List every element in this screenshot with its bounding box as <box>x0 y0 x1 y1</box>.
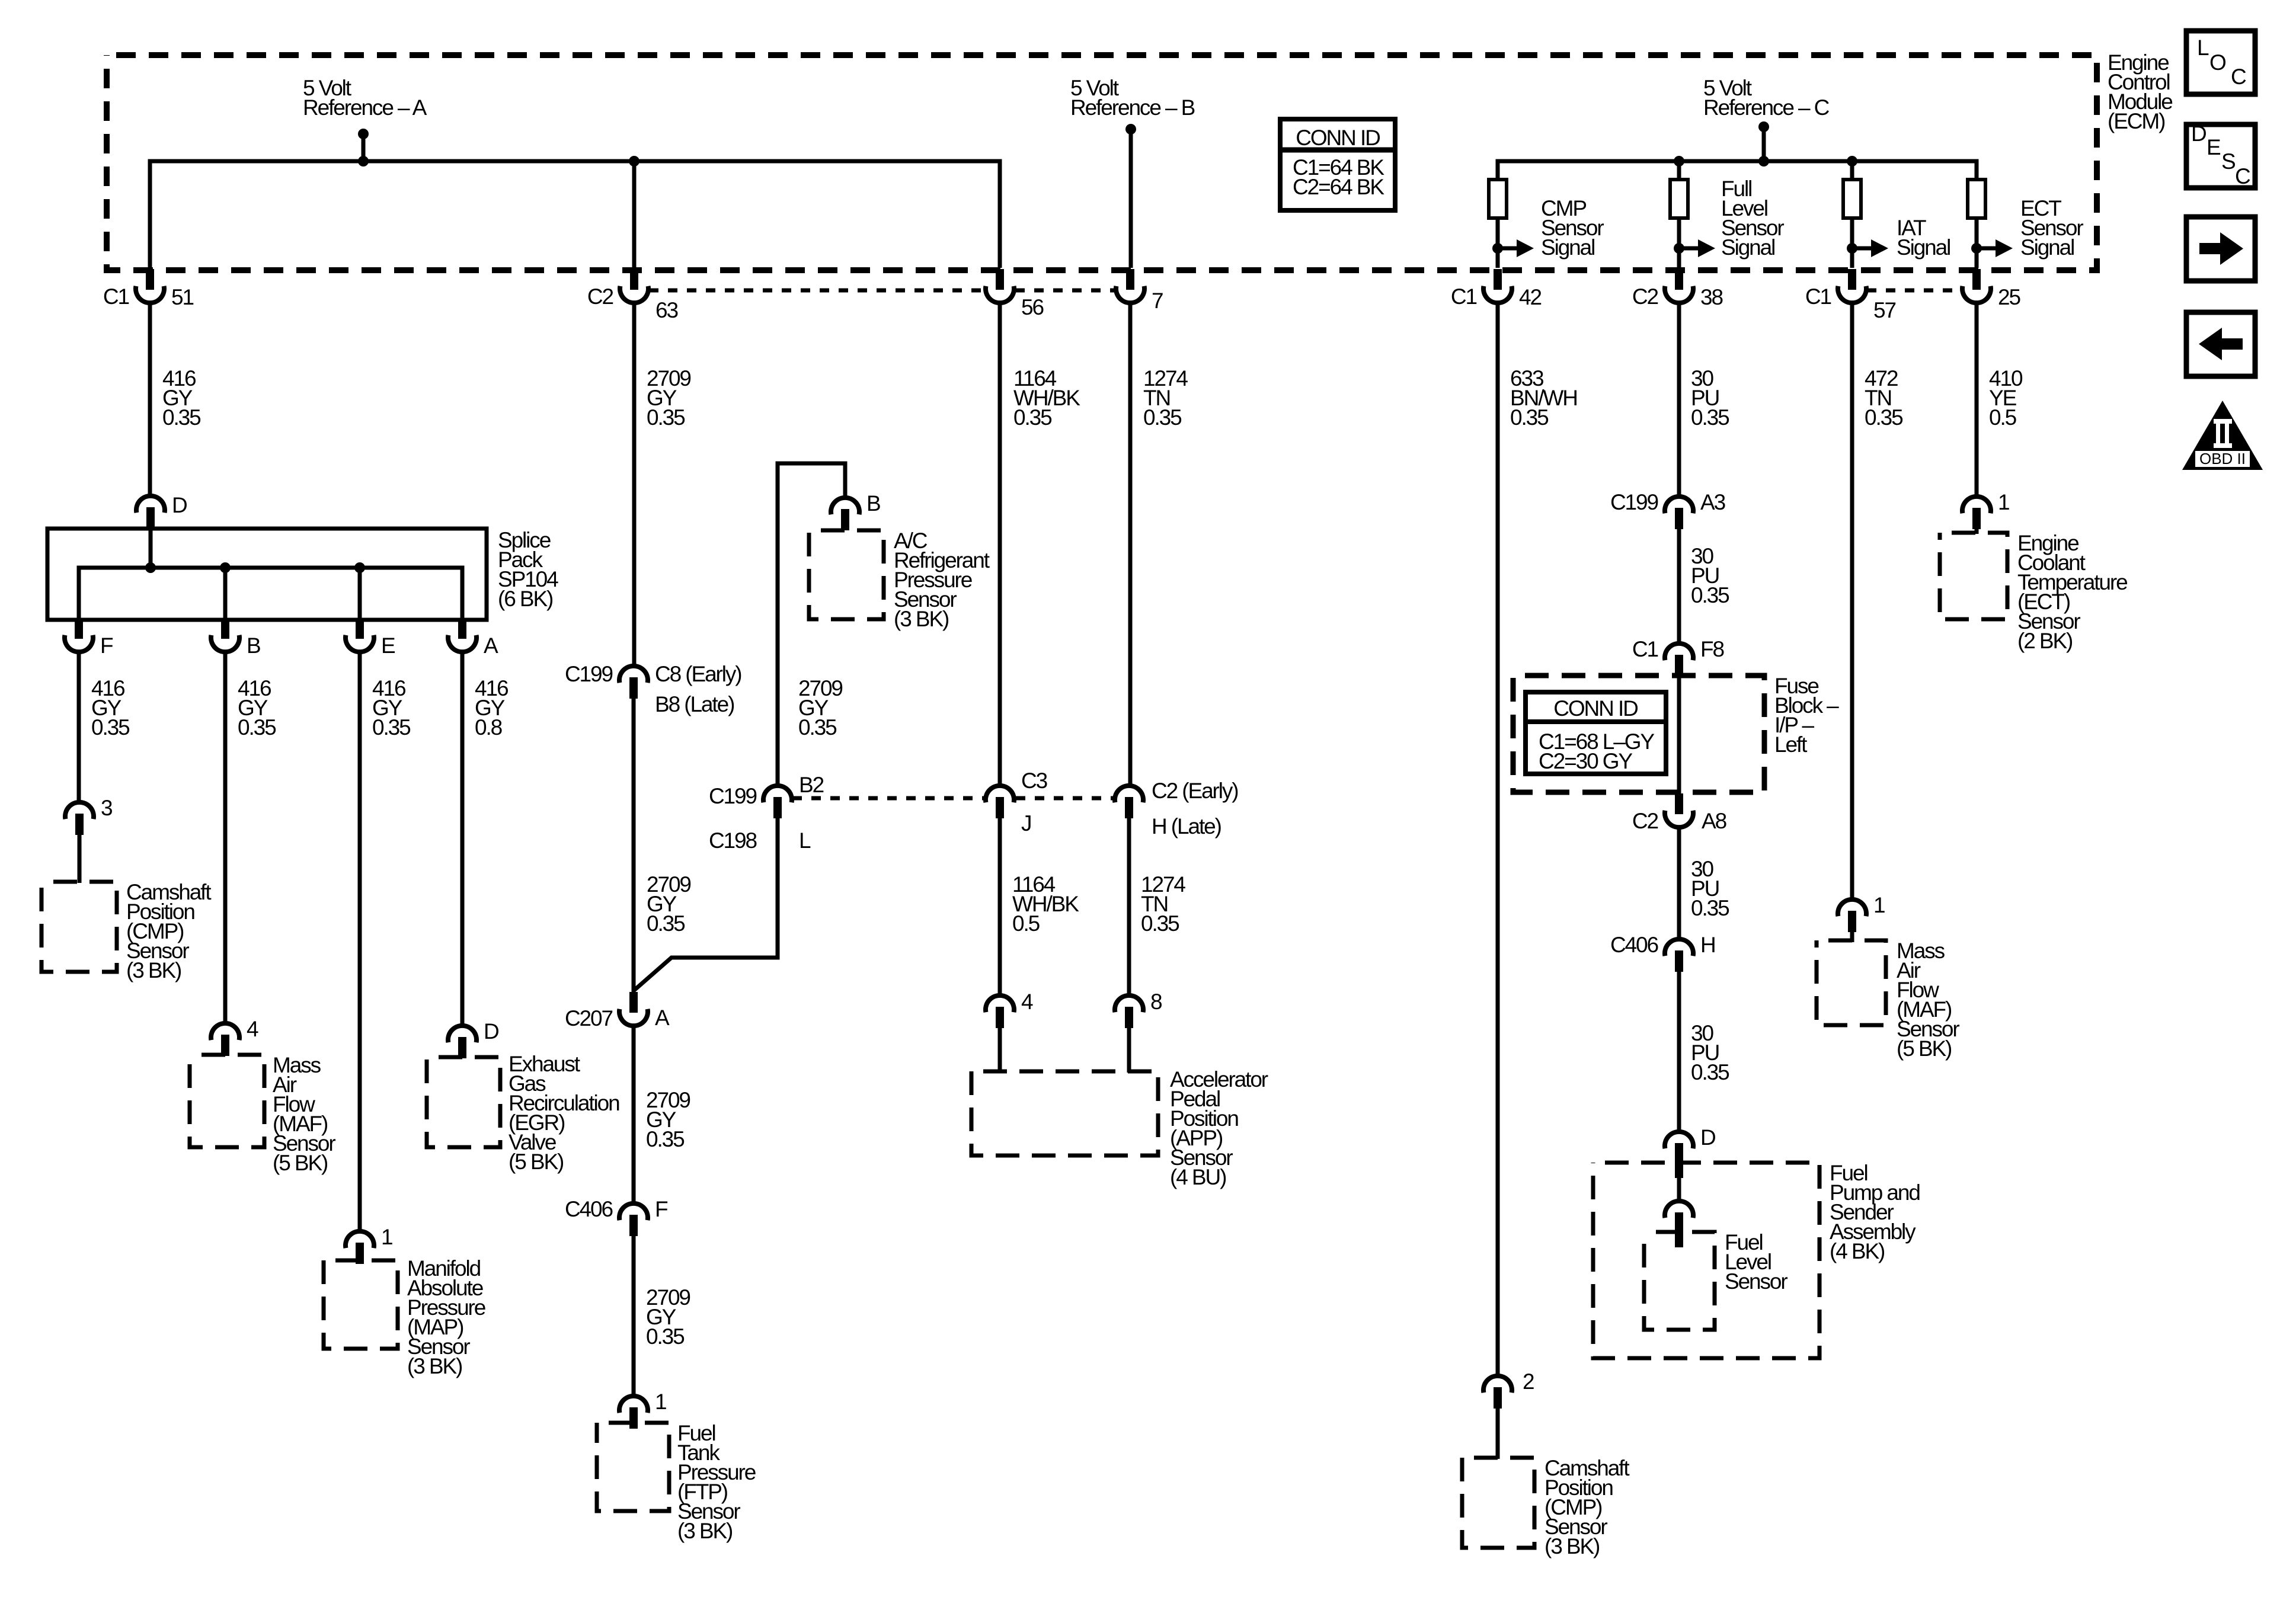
connector C2 pin 63 <box>587 269 678 322</box>
Engine Control Module box <box>107 55 2097 270</box>
label 1164 WH/BK 0.35 <box>1013 366 1080 430</box>
connector C406 F <box>565 1197 668 1236</box>
svg-text:E: E <box>2207 135 2221 159</box>
wire 1 into ECT box <box>1975 526 1979 534</box>
label 416 GY 0.8 (A) <box>475 676 508 740</box>
connector D fuel pump <box>1665 1125 1715 1164</box>
node B stub dot <box>1125 124 1136 135</box>
svg-text:(6 BK): (6 BK) <box>498 587 553 611</box>
svg-text:Signal: Signal <box>1897 235 1950 260</box>
node 5 Volt Reference - C label <box>1703 76 1830 120</box>
connector 1 MAF sensor (right) <box>1838 893 1885 932</box>
wire C stub <box>1762 127 1766 161</box>
fuel level sensor label <box>1725 1230 1787 1294</box>
wire H to fuel pump <box>1677 969 1681 1132</box>
svg-text:0.35: 0.35 <box>1691 583 1729 607</box>
wire r3 bottom <box>1850 218 1854 268</box>
svg-text:C: C <box>2235 164 2250 188</box>
svg-text:0.35: 0.35 <box>1143 405 1182 430</box>
svg-text:7: 7 <box>1152 289 1163 313</box>
label 2709 GY 0.35 (mid) <box>646 1088 690 1151</box>
svg-text:0.35: 0.35 <box>646 1127 685 1151</box>
svg-text:D: D <box>484 1019 498 1044</box>
wire 472 from pin 57 <box>1850 303 1854 900</box>
svg-text:4: 4 <box>1021 990 1033 1014</box>
splice pack SP104 box <box>47 529 487 620</box>
node C stub dot <box>1758 121 1769 132</box>
svg-text:C8 (Early): C8 (Early) <box>655 662 741 686</box>
right arrow box <box>2186 217 2255 281</box>
svg-text:(4 BU): (4 BU) <box>1170 1165 1226 1189</box>
wire F8 through fuse block <box>1677 673 1681 794</box>
svg-text:(3 BK): (3 BK) <box>407 1354 462 1378</box>
svg-text:F8: F8 <box>1700 637 1724 661</box>
svg-text:1: 1 <box>381 1225 392 1249</box>
connector C1 pin 57 <box>1805 269 1896 322</box>
label 2709 GY 0.35 (C207) <box>647 872 690 936</box>
svg-text:L: L <box>2197 36 2209 60</box>
Fuel Level Sensor box <box>1644 1232 1715 1330</box>
connector C406 H <box>1610 933 1715 972</box>
svg-text:(3 BK): (3 BK) <box>1544 1534 1600 1558</box>
wire B to MAF <box>223 652 228 1023</box>
connector pin 25 <box>1962 269 2020 309</box>
svg-text:A: A <box>655 1006 670 1030</box>
svg-text:42: 42 <box>1519 285 1541 309</box>
wire D into splice bus <box>149 529 153 568</box>
wire bus C <box>1498 161 1977 180</box>
CONN ID box (fuse block) <box>1526 692 1666 774</box>
node 5 Volt Reference - B label <box>1070 76 1195 120</box>
junction bus C r3 <box>1847 156 1857 167</box>
MAF sensor label (right) <box>1897 939 1959 1061</box>
svg-text:C406: C406 <box>565 1197 613 1221</box>
DESC box <box>2186 121 2255 188</box>
svg-text:0.35: 0.35 <box>647 405 685 430</box>
resistor CMP signal <box>1489 180 1507 218</box>
svg-text:Reference – A: Reference – A <box>303 95 427 120</box>
connector C2 A8 <box>1632 793 1726 833</box>
wire 38 to C199 A3 <box>1677 303 1681 497</box>
wire A8 to C406 H <box>1677 827 1681 939</box>
LOC box <box>2186 31 2255 94</box>
label 416 GY 0.35 (F) <box>91 676 130 740</box>
label 30 PU 0.35 (top) <box>1691 366 1729 430</box>
connector splice A <box>448 618 498 658</box>
svg-text:0.35: 0.35 <box>1013 405 1052 430</box>
wire 2 to CMP box <box>1496 1406 1500 1459</box>
connector 1 MAP sensor <box>346 1225 392 1264</box>
CMP sensor label (bottom) <box>1544 1456 1630 1558</box>
connector C199/C198 B2/L <box>709 773 824 853</box>
svg-text:A: A <box>484 633 498 658</box>
wire C406 to FTP <box>632 1233 636 1396</box>
svg-text:1: 1 <box>1873 893 1885 917</box>
wire r2 top <box>1677 161 1681 180</box>
arrow IAT signal <box>1847 216 1950 260</box>
svg-text:C2: C2 <box>1632 284 1658 309</box>
wire branch to pin 63 <box>632 161 637 268</box>
svg-text:C2: C2 <box>587 284 613 309</box>
Camshaft Position Sensor box <box>41 882 117 972</box>
svg-text:2: 2 <box>1523 1369 1534 1394</box>
svg-text:0.35: 0.35 <box>1510 405 1549 430</box>
svg-text:C: C <box>2231 65 2246 89</box>
label 416 GY 0.35 (B) <box>238 676 276 740</box>
connector pin 56 <box>986 269 1043 319</box>
wire 1274 from pin 7 <box>1128 303 1133 786</box>
svg-text:F: F <box>100 633 113 658</box>
svg-text:0.35: 0.35 <box>1691 405 1729 430</box>
svg-text:C1: C1 <box>1632 637 1658 661</box>
svg-text:L: L <box>799 828 811 853</box>
svg-text:C406: C406 <box>1610 933 1658 957</box>
Camshaft Position Sensor box (bottom) <box>1462 1458 1534 1548</box>
connector B A/C sensor <box>831 491 880 530</box>
wire 4 into APP box <box>998 1025 1002 1073</box>
left arrow box <box>2186 312 2255 376</box>
ECT sensor label <box>2017 531 2127 653</box>
ECM C1 harness dashed line right <box>1867 289 1959 293</box>
svg-text:1: 1 <box>655 1390 666 1414</box>
svg-text:(3 BK): (3 BK) <box>677 1519 733 1543</box>
fuel pump label <box>1830 1161 1920 1263</box>
svg-text:25: 25 <box>1998 285 2020 309</box>
svg-text:0.35: 0.35 <box>372 715 411 740</box>
wire splice bus <box>79 568 462 620</box>
svg-text:C2: C2 <box>1632 809 1658 833</box>
junction splice B <box>220 562 231 573</box>
svg-text:O: O <box>2209 50 2226 75</box>
svg-text:8: 8 <box>1150 990 1162 1014</box>
svg-text:H: H <box>1700 933 1715 957</box>
label 1274 TN 0.35 <box>1143 366 1188 430</box>
wire splice leg B <box>223 568 228 620</box>
label 2709 GY 0.35 (B2) <box>798 676 842 740</box>
EGR valve box <box>427 1057 500 1147</box>
connector splice F <box>65 618 113 658</box>
svg-text:Left: Left <box>1774 732 1808 757</box>
arrow Full Level sensor signal <box>1674 177 1784 260</box>
A/C Refrigerant Pressure Sensor box <box>809 530 884 619</box>
svg-text:0.35: 0.35 <box>238 715 276 740</box>
label 30 PU 0.35 (4) <box>1691 1021 1729 1084</box>
svg-text:C2=64 BK: C2=64 BK <box>1293 175 1384 199</box>
wire 1164 from pin 56 <box>998 303 1002 786</box>
svg-text:1: 1 <box>1998 490 2009 514</box>
junction splice D <box>145 562 156 573</box>
svg-text:D: D <box>1700 1125 1715 1150</box>
inline harness dashed line row2 <box>792 796 1113 801</box>
svg-text:Reference – B: Reference – B <box>1070 95 1195 120</box>
MAF sensor label <box>273 1053 335 1175</box>
connector 3 CMP sensor <box>65 796 112 835</box>
wire A stub <box>362 134 366 161</box>
connector C2 pin 38 <box>1632 269 1723 309</box>
svg-text:A8: A8 <box>1702 809 1726 833</box>
resistor IAT signal <box>1843 180 1861 218</box>
connector splice E <box>346 618 395 658</box>
svg-text:C199: C199 <box>709 784 757 808</box>
wire C8 to C207 <box>632 696 636 993</box>
svg-text:Signal: Signal <box>1721 235 1774 260</box>
svg-text:OBD II: OBD II <box>2199 450 2246 468</box>
arrow ECT sensor signal <box>1971 196 2083 260</box>
Manifold Absolute Pressure sensor box <box>324 1260 398 1349</box>
connector C1 F8 <box>1632 637 1724 676</box>
svg-text:C198: C198 <box>709 828 757 853</box>
svg-text:(3 BK): (3 BK) <box>126 958 181 982</box>
connector C1 pin 51 <box>103 269 194 309</box>
svg-text:Reference – C: Reference – C <box>1703 95 1830 120</box>
svg-text:57: 57 <box>1873 298 1895 322</box>
svg-text:C207: C207 <box>565 1006 613 1030</box>
junction bus C at stub <box>1758 156 1769 167</box>
svg-text:Signal: Signal <box>1541 235 1594 260</box>
junction bus A at stub <box>358 156 369 167</box>
svg-text:C199: C199 <box>565 662 613 686</box>
svg-text:38: 38 <box>1700 285 1722 309</box>
wire C207 to C406 <box>632 1026 636 1204</box>
svg-text:Signal: Signal <box>2020 235 2074 260</box>
wire splice leg E <box>358 568 362 620</box>
connector D EGR valve <box>448 1019 498 1058</box>
svg-text:CONN ID: CONN ID <box>1553 696 1638 721</box>
label 416 GY 0.35 (E) <box>372 676 411 740</box>
svg-text:0.35: 0.35 <box>1141 911 1179 936</box>
wire r4 bottom <box>1975 218 1979 268</box>
wire H to APP 8 <box>1127 816 1131 997</box>
OBD II badge <box>2182 401 2263 470</box>
Fuel Tank Pressure sensor box <box>597 1423 669 1511</box>
label 472 TN 0.35 <box>1865 366 1903 430</box>
connector C2(Early) H(Late) <box>1115 779 1238 838</box>
svg-text:0.5: 0.5 <box>1989 405 2017 430</box>
junction splice E <box>354 562 365 573</box>
svg-text:C3: C3 <box>1021 769 1047 793</box>
label 1164 WH/BK 0.5 <box>1012 872 1079 936</box>
Mass Air Flow sensor box <box>190 1055 264 1147</box>
connector D splice pack <box>136 493 187 529</box>
svg-text:0.8: 0.8 <box>475 715 502 740</box>
svg-text:B8 (Late): B8 (Late) <box>655 692 734 716</box>
wire D into pump <box>1677 1161 1681 1202</box>
connector 1 ECT sensor <box>1962 490 2009 529</box>
Engine Coolant Temperature sensor box <box>1940 533 2007 619</box>
svg-text:D: D <box>2191 121 2206 146</box>
FTP sensor label <box>677 1421 756 1543</box>
wire A to EGR <box>461 652 465 1026</box>
wire A/C sensor feed <box>778 463 845 785</box>
svg-text:0.35: 0.35 <box>647 911 685 936</box>
connector C1 pin 42 <box>1451 269 1542 309</box>
svg-text:E: E <box>381 633 395 658</box>
svg-text:56: 56 <box>1021 295 1043 319</box>
connector C199 A3 <box>1610 490 1725 529</box>
label 410 YE 0.5 <box>1989 366 2023 430</box>
APP sensor label <box>1170 1067 1268 1189</box>
connector C3 J <box>986 769 1047 836</box>
fuse block label <box>1774 674 1839 757</box>
svg-text:0.35: 0.35 <box>1865 405 1903 430</box>
junction bus C r2 <box>1674 156 1684 167</box>
svg-text:(2 BK): (2 BK) <box>2017 629 2073 653</box>
svg-text:H (Late): H (Late) <box>1152 814 1221 838</box>
label 2709 GY 0.35 (63) <box>647 366 690 430</box>
wire F to CMP <box>77 652 81 803</box>
svg-text:0.35: 0.35 <box>91 715 130 740</box>
svg-text:0.35: 0.35 <box>162 405 201 430</box>
connector 1 FTP sensor <box>619 1390 666 1429</box>
svg-text:(5 BK): (5 BK) <box>1897 1036 1952 1061</box>
wire bus A <box>150 161 1000 288</box>
wire 633 from pin 42 <box>1496 303 1500 1376</box>
wire A3 to C1 F8 <box>1677 526 1681 644</box>
svg-text:C199: C199 <box>1610 490 1658 514</box>
node A stub dot <box>358 129 369 139</box>
label 633 BN/WH 0.35 <box>1510 366 1577 430</box>
svg-text:CONN ID: CONN ID <box>1296 126 1380 150</box>
connector 4 MAF sensor <box>211 1017 258 1056</box>
label 30 PU 0.35 (3) <box>1691 857 1729 920</box>
wire 2709 GY from pin 63 <box>632 303 637 667</box>
wire B2 jog to C207 <box>634 815 778 991</box>
svg-text:J: J <box>1021 811 1031 836</box>
svg-text:F: F <box>655 1197 668 1221</box>
connector splice B <box>211 618 260 658</box>
svg-text:4: 4 <box>247 1017 258 1041</box>
EGR valve label <box>509 1052 619 1174</box>
connector C207 A <box>565 992 670 1030</box>
svg-text:(3 BK): (3 BK) <box>894 607 949 631</box>
CMP sensor label <box>126 880 212 982</box>
Mass Air Flow sensor box (right) <box>1817 940 1886 1025</box>
junction bus A branch 63 <box>629 156 639 167</box>
svg-text:63: 63 <box>655 298 677 322</box>
wire r3 top <box>1850 161 1854 180</box>
splice pack label <box>498 528 558 611</box>
wire 3 to CMP box <box>78 832 82 883</box>
svg-text:C2=30 GY: C2=30 GY <box>1539 749 1632 773</box>
ECM name label <box>2108 50 2172 133</box>
label 1274 TN 0.35 (low) <box>1141 872 1185 936</box>
node 5 Volt Reference - A label <box>303 76 427 120</box>
svg-text:B: B <box>866 491 880 516</box>
wire 8 into APP box <box>1127 1025 1131 1073</box>
connector 2 CMP sensor <box>1483 1369 1534 1409</box>
svg-text:A3: A3 <box>1700 490 1725 514</box>
Fuse Block I/P Left box <box>1513 676 1764 792</box>
svg-text:C1: C1 <box>1451 284 1477 309</box>
svg-text:3: 3 <box>101 796 112 820</box>
svg-text:(5 BK): (5 BK) <box>509 1150 564 1174</box>
svg-text:B: B <box>247 633 260 658</box>
resistor Full level signal <box>1670 180 1688 218</box>
svg-text:0.35: 0.35 <box>798 715 837 740</box>
wire 410 from pin 25 <box>1975 303 1979 497</box>
svg-text:51: 51 <box>171 285 193 309</box>
svg-text:(5 BK): (5 BK) <box>273 1151 328 1175</box>
label 2709 GY 0.35 (low) <box>646 1285 690 1349</box>
wire r2 bottom <box>1677 218 1681 268</box>
wire E to MAP <box>358 652 362 1231</box>
svg-text:S: S <box>2221 149 2235 174</box>
connector C199 C8/B8 <box>565 662 741 716</box>
connector pin 7 <box>1116 269 1163 313</box>
svg-text:0.5: 0.5 <box>1012 911 1040 936</box>
wire 1 into MAF box <box>1850 929 1854 942</box>
wire 416 GY from pin 51 <box>148 303 152 498</box>
svg-text:0.35: 0.35 <box>646 1324 685 1349</box>
svg-text:C1: C1 <box>103 284 129 309</box>
wire J to APP 4 <box>998 816 1002 997</box>
svg-text:(ECM): (ECM) <box>2108 109 2165 133</box>
arrow CMP sensor signal <box>1492 196 1604 260</box>
svg-text:0.35: 0.35 <box>1691 896 1729 920</box>
svg-text:B2: B2 <box>799 773 824 797</box>
svg-text:Sensor: Sensor <box>1725 1269 1787 1294</box>
svg-text:(4 BK): (4 BK) <box>1830 1239 1885 1263</box>
connector 4 APP sensor <box>986 990 1033 1028</box>
MAP sensor label <box>407 1256 485 1378</box>
resistor ECT signal <box>1968 180 1985 218</box>
connector fuel level sensor <box>1665 1201 1693 1234</box>
label 30 PU 0.35 (2) <box>1691 544 1729 607</box>
svg-text:C2 (Early): C2 (Early) <box>1152 779 1238 803</box>
svg-text:0.35: 0.35 <box>1691 1060 1729 1084</box>
wire r1 bottom <box>1496 218 1500 268</box>
ECM C2 harness dashed line <box>649 289 1115 293</box>
Fuel Pump and Sender Assembly box <box>1593 1163 1819 1358</box>
Accelerator Pedal Position sensor box <box>971 1071 1158 1156</box>
A/C sensor label <box>894 529 990 631</box>
svg-text:D: D <box>172 493 187 517</box>
wire B down to pin 7 <box>1129 129 1133 268</box>
connector 8 APP sensor <box>1115 990 1162 1028</box>
svg-text:C1: C1 <box>1805 284 1831 309</box>
label 416 GY 0.35 <box>162 366 201 430</box>
